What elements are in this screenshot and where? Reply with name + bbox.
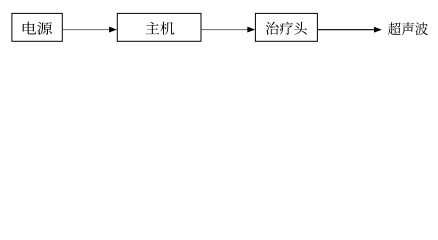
- node label 超声波 (ultrasound output): [388, 22, 428, 35]
- label 治疗头 (treatment head): [266, 22, 307, 35]
- wire: 治疗头 -> ultrasound output: [318, 29, 375, 31]
- label 主机 (main unit): [146, 22, 175, 35]
- wire: 主机 -> 治疗头: [202, 29, 249, 31]
- wire: 电源 -> 主机: [63, 29, 110, 31]
- label 电源 (power supply): [23, 22, 52, 35]
- arrowhead at ultrasound output: [374, 27, 382, 33]
- block 治疗头 (treatment head block): [255, 13, 317, 41]
- block 电源 (power supply block): [12, 13, 62, 41]
- arrowhead at 治疗头 input: [247, 27, 255, 33]
- block 主机 (main unit block): [117, 13, 201, 41]
- arrowhead at 主机 input: [109, 27, 117, 33]
